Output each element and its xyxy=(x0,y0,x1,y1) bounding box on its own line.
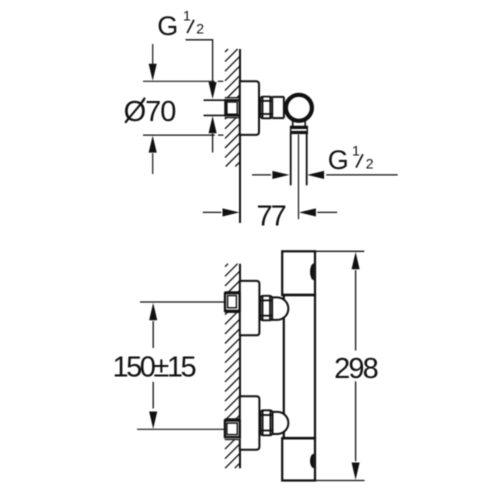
svg-text:G: G xyxy=(328,145,349,175)
svg-text:G: G xyxy=(157,11,178,41)
svg-text:150±15: 150±15 xyxy=(113,351,196,383)
svg-text:1: 1 xyxy=(352,143,360,159)
svg-text:Ø70: Ø70 xyxy=(124,96,176,128)
svg-text:2: 2 xyxy=(196,21,204,37)
svg-text:298: 298 xyxy=(334,353,377,385)
svg-text:77: 77 xyxy=(256,200,285,232)
svg-text:2: 2 xyxy=(366,156,374,172)
svg-text:1: 1 xyxy=(183,7,191,23)
